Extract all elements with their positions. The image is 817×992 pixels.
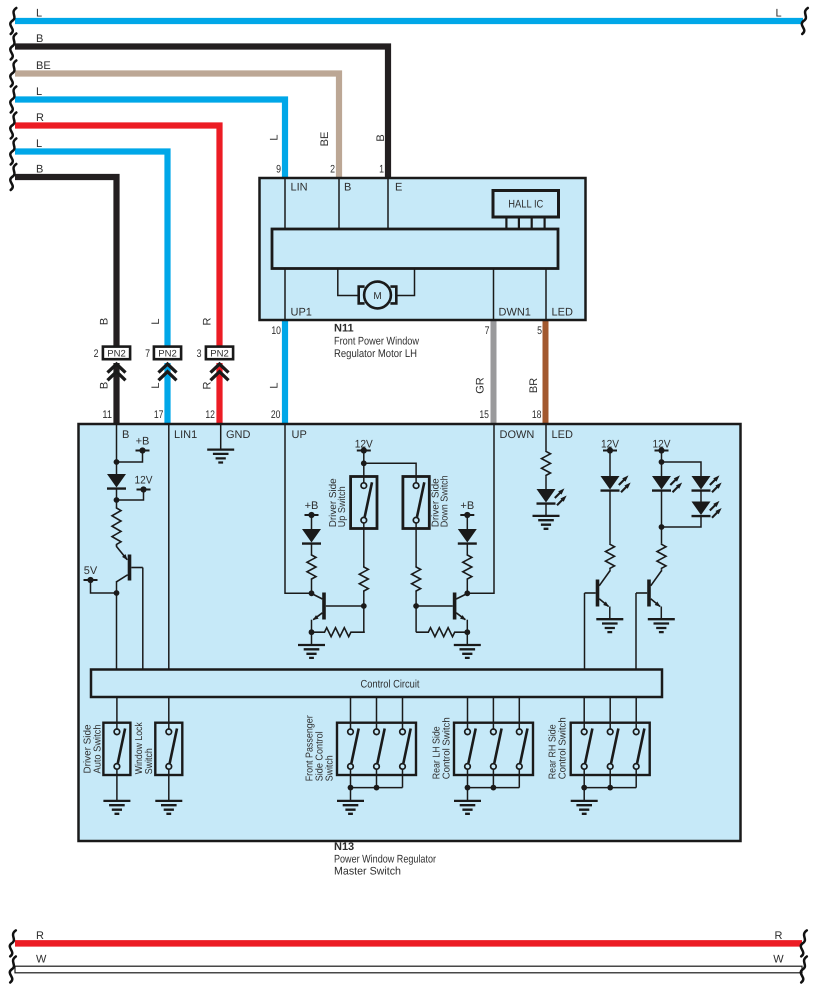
node 12V branch	[361, 460, 367, 466]
wire B below PN2-2	[113, 363, 119, 425]
svg-text:LIN: LIN	[291, 182, 308, 194]
node UP collector	[309, 590, 315, 596]
node junction 5V	[114, 590, 120, 596]
terminal 5V	[84, 565, 98, 583]
wires rear LH switch commons	[468, 769, 520, 788]
wire R1 to transistor Q1 emitter	[116, 545, 118, 547]
svg-text:+B: +B	[460, 500, 474, 512]
svg-text:LIN1: LIN1	[174, 429, 197, 441]
svg-text:L: L	[775, 8, 781, 20]
ground front passenger switch	[337, 801, 364, 814]
wire GR (DWN1 to DOWN)	[491, 319, 497, 425]
wire 5V to collector line	[91, 580, 117, 593]
terminal +B	[136, 436, 150, 454]
switch S7 rear RH side control	[571, 723, 650, 775]
node Q3 base junction	[413, 603, 419, 609]
switch S1 driver side up	[351, 477, 377, 529]
svg-text:R: R	[201, 381, 213, 389]
wire D3 to resistor R7	[466, 544, 468, 554]
svg-text:LED: LED	[552, 307, 573, 319]
ground window lock switch	[155, 801, 182, 814]
N11 component title	[334, 323, 419, 361]
N11 box outline	[260, 178, 586, 320]
svg-text:L: L	[36, 8, 42, 20]
wire B to N11 pin E	[10, 33, 388, 177]
svg-text:20: 20	[271, 409, 281, 421]
wire rear LH common to ground	[467, 788, 469, 801]
svg-text:Switch: Switch	[144, 748, 155, 774]
svg-text:L: L	[36, 138, 42, 150]
wire R10 to Q5 collector	[661, 569, 663, 571]
svg-text:Auto Switch: Auto Switch	[92, 725, 103, 774]
wire bar to motor left	[338, 269, 359, 296]
resistor R7	[463, 554, 472, 580]
N11 pin E lead	[388, 179, 402, 229]
wire GND pin to ground	[220, 425, 222, 450]
svg-text:Control Switch: Control Switch	[558, 717, 569, 779]
wires control circuit to front passenger switch	[351, 697, 403, 729]
wire FP common to ground	[350, 788, 352, 801]
terminal 12V (driver switches)	[355, 439, 374, 454]
resistor R3 (feedback, horizontal)	[312, 628, 365, 637]
node Q3 emitter	[464, 629, 470, 635]
svg-text:B: B	[98, 318, 110, 325]
svg-text:12V: 12V	[135, 475, 154, 487]
svg-text:W: W	[773, 954, 784, 966]
wire to 12V terminal	[117, 490, 144, 501]
node Q2 emitter	[309, 629, 315, 635]
motor M	[359, 282, 397, 309]
svg-text:3: 3	[197, 348, 202, 360]
wire branch to LED4/LED5	[662, 462, 702, 527]
wire +B to diode D2	[311, 515, 313, 529]
wire Q3 emitter to ground	[466, 620, 468, 645]
svg-text:LED: LED	[552, 429, 573, 441]
terminal +B (DOWN side)	[460, 500, 474, 518]
svg-text:Master Switch: Master Switch	[334, 866, 401, 878]
node DOWN collector	[464, 590, 470, 596]
resistor R9	[606, 543, 615, 569]
LED LED5	[692, 499, 724, 517]
svg-text:17: 17	[154, 409, 164, 421]
LED LED4	[692, 474, 724, 492]
wire 12V-A to LED2	[609, 451, 611, 477]
LED LED2	[601, 474, 633, 492]
LED LED1	[537, 487, 569, 505]
svg-text:BE: BE	[36, 60, 51, 72]
wire Q5 base to control circuit	[635, 593, 637, 670]
wire R bottom	[10, 930, 807, 956]
label driver side up switch	[328, 478, 348, 527]
svg-text:Front Power Window: Front Power Window	[334, 336, 419, 348]
N13 component title	[334, 841, 436, 878]
svg-text:12V: 12V	[653, 438, 672, 450]
wire B pin to diode D1	[116, 425, 118, 474]
wire control circuit to window lock switch	[168, 697, 170, 729]
svg-text:PN2: PN2	[107, 348, 125, 359]
svg-text:L: L	[150, 318, 162, 324]
svg-text:N13: N13	[334, 841, 354, 853]
switch S4 window lock	[155, 723, 182, 775]
wire L to N11 pin LIN	[10, 86, 285, 177]
node rear LH common 2	[491, 785, 497, 791]
node rear RH common 2	[607, 785, 613, 791]
N11 pin LIN lead	[285, 179, 308, 229]
resistor R1	[112, 507, 121, 546]
wire +B to diode D3	[466, 515, 468, 529]
svg-text:+B: +B	[305, 500, 319, 512]
svg-text:W: W	[36, 954, 47, 966]
svg-text:Control Circuit: Control Circuit	[361, 679, 420, 691]
node Q2 base junction	[361, 603, 367, 609]
label window lock switch	[134, 721, 155, 774]
wire Q2 emitter to ground	[311, 620, 313, 645]
wire LED3 to junction	[661, 491, 663, 543]
N13 box fill	[79, 424, 741, 841]
terminal 12V (illumination B)	[653, 438, 672, 453]
N11 internal circuit bar	[272, 229, 558, 269]
svg-text:HALL IC: HALL IC	[508, 199, 543, 211]
transistor Q3 (NPN)	[416, 593, 467, 621]
svg-text:Control Switch: Control Switch	[442, 717, 453, 779]
resistor R5 (below down switch)	[412, 566, 421, 592]
svg-text:GR: GR	[475, 377, 487, 394]
resistor R8	[542, 450, 551, 476]
svg-text:L: L	[268, 382, 280, 388]
node junction B/+B	[114, 459, 120, 465]
svg-text:M: M	[373, 291, 381, 302]
wire W bottom	[10, 954, 807, 983]
wire R below PN2-3	[216, 363, 222, 425]
wire R8 to LED1	[545, 476, 547, 489]
wire LED1 to ground	[545, 504, 547, 516]
connector PN2 pin 7	[145, 347, 181, 381]
svg-text:PN2: PN2	[210, 348, 228, 359]
svg-text:Down Switch: Down Switch	[440, 475, 451, 527]
transistor Q4 (NPN)	[585, 571, 610, 607]
diode D3	[458, 529, 477, 544]
wires control circuit to rear LH switch	[468, 697, 520, 729]
wire R7 to node	[466, 580, 468, 593]
N11 pin DWN1 lead	[494, 269, 531, 320]
N11 pin LED lead	[546, 269, 573, 320]
svg-text:L: L	[150, 382, 162, 388]
svg-text:2: 2	[94, 348, 99, 360]
resistor R6 (feedback, horizontal)	[416, 628, 467, 637]
switch S2 driver side down	[403, 477, 429, 529]
wire BR (LED to LED)	[543, 319, 549, 425]
diode D1	[107, 474, 126, 489]
LED LED3	[652, 474, 684, 492]
control circuit block	[91, 670, 662, 698]
label driver side auto switch	[82, 724, 103, 773]
svg-text:E: E	[395, 182, 402, 194]
N11 box fill	[260, 178, 586, 320]
wires control circuit to rear RH switch	[584, 697, 636, 729]
label rear LH side control switch	[432, 717, 453, 779]
svg-text:B: B	[36, 164, 43, 176]
diode D2	[302, 529, 321, 544]
svg-text:R: R	[36, 112, 44, 124]
svg-text:B: B	[36, 33, 43, 45]
svg-text:R: R	[201, 317, 213, 325]
wire R2 to node	[311, 580, 313, 593]
wire LED pin to resistor R8	[545, 425, 547, 450]
svg-text:B: B	[344, 182, 351, 194]
connector PN2 pin 2	[94, 347, 131, 381]
node junction 12V	[114, 497, 120, 503]
svg-text:B: B	[122, 429, 129, 441]
wire window lock switch to ground	[168, 769, 170, 801]
svg-text:B: B	[375, 134, 387, 141]
connector PN2 pin 3	[197, 347, 233, 381]
ground Q2 emitter	[298, 645, 325, 658]
N11 pin UP1 lead	[285, 269, 312, 320]
svg-text:PN2: PN2	[158, 348, 176, 359]
terminal +B (UP side)	[305, 500, 319, 518]
wire 12V-B trunk	[661, 451, 663, 477]
wire L to connector PN2-7	[10, 138, 167, 347]
svg-text:L: L	[268, 134, 280, 140]
switch S5 front passenger side control	[337, 723, 416, 775]
ground Q5 emitter	[648, 619, 675, 632]
wire switch resistor column	[363, 523, 365, 632]
label rear RH side control switch	[548, 717, 569, 779]
wire L top full-width	[10, 8, 808, 35]
svg-text:18: 18	[532, 409, 542, 421]
ground GND pin	[207, 450, 234, 463]
transistor Q2 (NPN)	[312, 593, 364, 621]
wire L (UP1 to UP)	[282, 319, 288, 425]
svg-text:BR: BR	[528, 378, 540, 393]
wire D1 to resistor R1	[116, 489, 118, 507]
wire DOWN pin to node	[467, 425, 494, 593]
svg-text:12: 12	[205, 409, 215, 421]
wires rear RH switch commons	[584, 769, 636, 788]
svg-text:1: 1	[379, 164, 384, 176]
wire control circuit to auto switch	[116, 697, 118, 729]
wires front passenger switch commons	[351, 769, 403, 788]
svg-text:Switch: Switch	[325, 755, 336, 781]
svg-text:9: 9	[276, 164, 281, 176]
svg-text:12V: 12V	[601, 438, 620, 450]
wire Q4 emitter to ground	[609, 607, 611, 620]
label front passenger side control switch	[305, 715, 336, 782]
terminal 12V	[135, 475, 154, 493]
svg-text:12V: 12V	[355, 439, 374, 451]
node rear LH common 1	[465, 785, 471, 791]
wire B to connector PN2-2	[10, 164, 116, 348]
switch S6 rear LH side control	[454, 723, 533, 775]
ground rear RH switch	[571, 801, 598, 814]
wire Q1 collector down to control circuit	[116, 581, 118, 670]
svg-text:2: 2	[330, 164, 335, 176]
svg-text:Regulator Motor LH: Regulator Motor LH	[334, 348, 417, 360]
ground Q4 emitter	[596, 619, 623, 632]
resistor R2	[307, 554, 316, 580]
wire BE to N11 pin B	[10, 60, 339, 177]
HALL IC U1	[493, 191, 559, 230]
transistor Q1 (PNP)	[117, 547, 143, 582]
wire L below PN2-7	[164, 363, 170, 425]
wire UP pin to node	[285, 425, 312, 593]
wire 12V to switches	[364, 451, 416, 484]
wire bar to motor right	[397, 269, 415, 296]
wire Q4 base to control circuit	[584, 593, 586, 670]
wire auto switch to ground	[116, 769, 118, 801]
N11 pin B lead	[339, 179, 351, 229]
svg-text:B: B	[98, 382, 110, 389]
node rear RH common 1	[581, 785, 587, 791]
svg-text:10: 10	[271, 325, 281, 337]
svg-text:R: R	[36, 930, 44, 942]
svg-text:UP1: UP1	[291, 307, 312, 319]
node FP common 2	[374, 785, 380, 791]
node 12V-B branch bottom	[659, 524, 665, 530]
terminal 12V (illumination A)	[601, 438, 620, 453]
resistor R4 (below up switch)	[359, 566, 368, 592]
svg-text:R: R	[775, 930, 783, 942]
svg-text:11: 11	[102, 409, 112, 421]
svg-text:7: 7	[485, 325, 490, 337]
svg-text:5: 5	[537, 325, 542, 337]
wire rear RH common to ground	[583, 788, 585, 801]
svg-text:Power Window Regulator: Power Window Regulator	[334, 854, 436, 866]
svg-text:DOWN: DOWN	[500, 429, 535, 441]
svg-text:+B: +B	[136, 436, 150, 448]
svg-text:DWN1: DWN1	[499, 307, 531, 319]
svg-text:N11: N11	[334, 323, 354, 335]
wire R to connector PN2-3	[10, 112, 219, 347]
label driver side down switch	[431, 475, 451, 527]
svg-text:BE: BE	[319, 132, 331, 147]
wire Q5 emitter to ground	[660, 607, 662, 620]
wire D2 to resistor R2	[311, 544, 313, 554]
node FP common 1	[348, 785, 354, 791]
svg-text:UP: UP	[292, 429, 307, 441]
ground rear LH switch	[454, 801, 481, 814]
ground Q3 emitter	[454, 645, 481, 658]
wire to +B terminal	[117, 451, 143, 463]
wire LIN1 to control circuit	[168, 425, 170, 670]
svg-text:L: L	[36, 86, 42, 98]
resistor R10	[657, 543, 666, 569]
ground LED1	[533, 516, 560, 529]
transistor Q5 (NPN)	[636, 571, 661, 607]
wire Q1 base down to control circuit	[142, 568, 144, 670]
ground auto switch	[103, 801, 130, 814]
node 12V-B branch top	[659, 459, 665, 465]
svg-text:7: 7	[145, 348, 150, 360]
switch S3 driver side auto	[103, 723, 130, 775]
N13 box outline	[79, 424, 741, 841]
svg-text:Up Switch: Up Switch	[337, 486, 348, 527]
wire LED2 to resistor R9	[609, 491, 611, 543]
svg-text:15: 15	[479, 409, 489, 421]
wire down switch to resistor R5	[415, 523, 417, 632]
svg-text:GND: GND	[226, 429, 251, 441]
wire R9 to Q4 collector	[609, 569, 611, 571]
svg-text:5V: 5V	[84, 565, 98, 577]
